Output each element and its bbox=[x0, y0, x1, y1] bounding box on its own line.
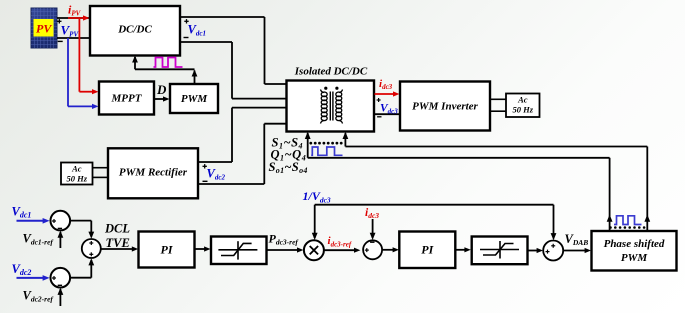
wire PI to limiter bbox=[195, 246, 211, 251]
svg-text:idc3-ref: idc3-ref bbox=[328, 235, 352, 248]
wire gate drive 2 into Isolated DC/DC bbox=[343, 132, 349, 147]
summer S4 (current loop) bbox=[363, 240, 382, 259]
wire PWM Inverter to Ac source bbox=[490, 99, 506, 111]
wire i_dc3 into summer S4 bbox=[370, 219, 376, 240]
svg-text:Vdc1-ref: Vdc1-ref bbox=[23, 232, 55, 247]
wire V_dc1 positive bus to Isolated DC/DC bbox=[180, 17, 287, 84]
block limiter (saturation) bbox=[211, 237, 267, 265]
svg-text:Pdc3-ref: Pdc3-ref bbox=[269, 232, 300, 247]
wire V_dc1 negative bus to Isolated DC/DC bbox=[180, 42, 287, 99]
wire i_dc3 red arrow bbox=[375, 91, 400, 96]
multiplier M1 bbox=[304, 240, 324, 260]
svg-text:PWM Inverter: PWM Inverter bbox=[412, 101, 478, 113]
svg-text:50 Hz: 50 Hz bbox=[67, 174, 88, 184]
wire summer S5 to Phase shifted PWM bbox=[563, 248, 591, 253]
svg-text:VPV: VPV bbox=[61, 23, 80, 39]
wire V_dc2-ref up into summer bbox=[58, 288, 64, 306]
wire Isolated DC/DC to PWM Inverter bottom bbox=[375, 113, 401, 115]
svg-text:D: D bbox=[156, 82, 167, 97]
wire gate bus 2 from Phase shifted PWM bbox=[345, 147, 650, 232]
wire summer S3 to PI bbox=[101, 246, 138, 251]
block Phase shifted PWM bbox=[592, 231, 677, 271]
wire V_dc2 into summer bbox=[17, 275, 50, 281]
svg-text:Vdc3: Vdc3 bbox=[380, 102, 398, 115]
svg-text:idc3: idc3 bbox=[365, 207, 379, 220]
svg-text:Vdc1: Vdc1 bbox=[12, 205, 32, 220]
svg-text:Ac: Ac bbox=[71, 164, 82, 174]
svg-text:iPV: iPV bbox=[68, 3, 82, 18]
block limiter 2 (saturation) bbox=[472, 237, 528, 265]
block PWM Rectifier bbox=[108, 148, 198, 198]
wire limiter 2 to summer S5 bbox=[528, 248, 543, 253]
waveform phase-shift pulse (blue) bbox=[614, 216, 642, 225]
wire DC/DC gate drive from PWM bbox=[132, 56, 197, 85]
svg-text:Isolated DC/DC: Isolated DC/DC bbox=[294, 66, 368, 78]
wire V_PV blue sense to MPPT bbox=[68, 38, 99, 109]
summer S1 (Vdc1) bbox=[51, 211, 71, 231]
summer S3 (DCL TVE) bbox=[82, 239, 101, 258]
wire multiplier to summer S4 bbox=[324, 248, 361, 253]
svg-text:50 Hz: 50 Hz bbox=[513, 105, 534, 115]
wire gate bus 1 from Phase shifted PWM bbox=[308, 158, 613, 231]
wire PI to limiter 2 bbox=[455, 247, 471, 252]
block PI (voltage loop) bbox=[139, 232, 195, 268]
wire 1/V_dc3 feed bbox=[312, 205, 554, 240]
wire V feedforward into summer S5 bbox=[551, 205, 557, 241]
svg-text:MPPT: MPPT bbox=[111, 93, 143, 105]
label DCL TVE bbox=[104, 222, 130, 251]
block Ac 50 Hz (left) bbox=[61, 163, 93, 185]
svg-text:PWM Rectifier: PWM Rectifier bbox=[119, 167, 188, 179]
block PWM bbox=[170, 84, 218, 113]
svg-text:PWM: PWM bbox=[621, 252, 649, 264]
svg-text:1/Vdc3: 1/Vdc3 bbox=[303, 189, 331, 204]
svg-text:DC/DC: DC/DC bbox=[117, 24, 152, 36]
wire gate drive 1 into Isolated DC/DC bbox=[305, 132, 311, 158]
node V_dc1 label bbox=[184, 19, 206, 38]
node V_dc3 label bbox=[377, 98, 399, 117]
wire summer S4 to PI bbox=[382, 247, 399, 252]
node V_dc2 label bbox=[203, 164, 226, 182]
block PI (current loop) bbox=[399, 232, 455, 269]
svg-text:VDAB: VDAB bbox=[565, 232, 589, 247]
svg-text:Phase shifted: Phase shifted bbox=[604, 238, 665, 250]
svg-text:Vdc2: Vdc2 bbox=[12, 262, 32, 277]
dotted line (phase bundle) bbox=[609, 226, 645, 229]
svg-text:DCL: DCL bbox=[104, 222, 130, 236]
wire Ac source to PWM Rectifier bbox=[93, 168, 109, 178]
svg-text:Ac: Ac bbox=[517, 95, 528, 105]
PV panel bbox=[31, 8, 57, 48]
summer S5 (V_DAB) bbox=[543, 241, 563, 261]
svg-text:PV: PV bbox=[36, 22, 52, 36]
block Isolated DC/DC bbox=[287, 81, 375, 132]
wire summer S1 to summer S3 bbox=[70, 221, 94, 239]
svg-text:PI: PI bbox=[161, 243, 174, 257]
wire V_dc2 negative bus to Isolated DC/DC bbox=[198, 124, 287, 184]
svg-text:Vdc1: Vdc1 bbox=[188, 23, 206, 38]
block Ac 50 Hz (right) bbox=[506, 94, 540, 118]
wire i_PV red sense to MPPT bbox=[68, 15, 99, 94]
wire MPPT to PWM bbox=[154, 96, 170, 101]
waveform gate pulse (blue) bbox=[311, 147, 342, 155]
svg-text:Vdc2: Vdc2 bbox=[207, 167, 226, 182]
svg-text:PWM: PWM bbox=[181, 93, 209, 105]
wire summer S2 to summer S3 bbox=[70, 258, 94, 278]
block DC/DC bbox=[90, 6, 180, 56]
wire PV bottom to DC/DC bbox=[57, 37, 90, 39]
wire V_dc2 positive bus to Isolated DC/DC bbox=[198, 108, 287, 162]
wire limiter to multiplier bbox=[267, 247, 304, 252]
wire V_dc1-ref up into summer bbox=[58, 231, 64, 248]
svg-text:Vdc2-ref: Vdc2-ref bbox=[23, 289, 55, 304]
dotted line (gate bundle) bbox=[309, 142, 342, 145]
waveform PWM pulse (magenta) bbox=[154, 58, 183, 68]
node V_PV plus/minus label bbox=[57, 19, 79, 41]
svg-text:TVE: TVE bbox=[106, 236, 130, 250]
wire PV top to DC/DC bbox=[57, 17, 90, 19]
wire V_dc1 into summer bbox=[17, 218, 50, 224]
svg-text:PI: PI bbox=[421, 243, 434, 257]
summer S2 (Vdc2) bbox=[51, 268, 71, 288]
svg-text:idc3: idc3 bbox=[379, 78, 393, 91]
block PWM Inverter bbox=[400, 82, 490, 131]
transformer T1 bbox=[321, 87, 343, 124]
block MPPT bbox=[99, 82, 154, 115]
